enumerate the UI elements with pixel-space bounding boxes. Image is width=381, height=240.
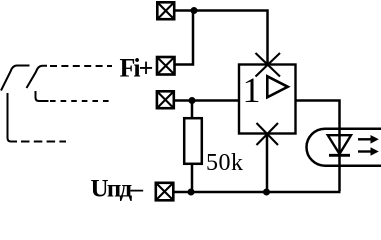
- terminal X3 (middle crossed box): [157, 91, 174, 108]
- wire: terminal X3 to U1 input: [175, 99, 239, 102]
- svg-text:Uпд–: Uпд–: [91, 176, 144, 203]
- wire: resistor R1 to node C: [191, 164, 194, 193]
- wire: node B down to resistor R1: [191, 101, 194, 120]
- wire: terminal X1 to node A: [175, 9, 194, 12]
- LED VD1 (optocoupler emitter) body: [307, 129, 381, 166]
- pin mark X (U1 bottom, non-logic pin): [257, 123, 279, 145]
- switch contact S1.2 terminal wire: [36, 91, 49, 101]
- resistor R1: [184, 118, 202, 164]
- dashed link to middle terminal: [50, 100, 113, 102]
- node D (junction dot): [263, 189, 270, 196]
- wire: bottom rail: [175, 191, 341, 194]
- dashed link to Fi+ terminal: [50, 65, 112, 67]
- op-amp U1 (logic buffer block): [239, 65, 296, 134]
- svg-text:1: 1: [243, 70, 261, 110]
- switch contact S1.1 terminal wire: [8, 93, 18, 142]
- node B (junction dot): [189, 97, 196, 104]
- dashed link bottom: [21, 141, 66, 143]
- switch contact S1.1 lever: [1, 66, 30, 91]
- light emission arrow (bottom): [358, 147, 379, 156]
- switch contact S1.2 lever: [27, 66, 48, 88]
- wire: U1 output to LED: [296, 101, 340, 192]
- terminal X1 (top crossed box): [157, 2, 174, 19]
- node C (junction dot): [188, 189, 195, 196]
- node A (junction dot): [191, 7, 198, 14]
- svg-text:Fi+: Fi+: [120, 54, 154, 83]
- LED VD1 cathode bar: [329, 154, 350, 157]
- terminal X2 (Fi+ crossed box): [157, 57, 175, 75]
- LED VD1 diode triangle: [328, 135, 351, 154]
- wire: node A down to terminal X2: [176, 11, 194, 65]
- wire: U1 bottom pin to node D: [266, 134, 269, 193]
- pin mark X (U1 top, non-logic pin): [256, 53, 281, 77]
- terminal X4 (Uпд- crossed box): [156, 183, 174, 201]
- wire: node A right and down to U1 top pin: [194, 11, 268, 65]
- svg-text:50k: 50k: [206, 150, 243, 176]
- light emission arrow (top): [358, 135, 379, 144]
- amplifier triangle inside U1: [267, 76, 288, 97]
